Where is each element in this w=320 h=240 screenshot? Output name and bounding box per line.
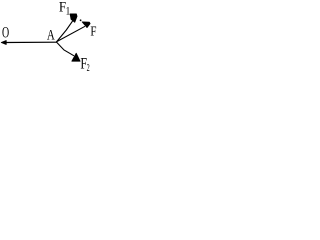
svg-text:A: A [47, 26, 55, 43]
svg-text:1: 1 [66, 6, 71, 18]
svg-text:2: 2 [87, 62, 90, 73]
svg-text:F: F [90, 23, 96, 38]
svg-text:O: O [2, 23, 9, 41]
